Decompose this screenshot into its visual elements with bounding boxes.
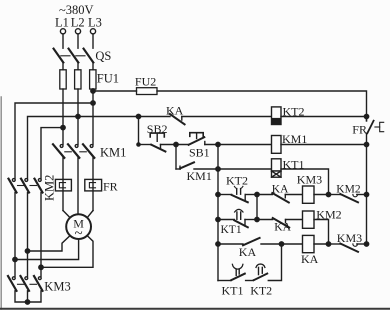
wire KA row1 to KM3 coil: [285, 194, 302, 196]
wire KM2 coil to row3: [314, 220, 329, 245]
node line3 left rail junction: [216, 142, 220, 146]
wire branch tap V (rail2 to left): [28, 117, 79, 179]
row4: wire rail corner to KT1: [218, 280, 231, 282]
wire row1-row2 connector: [256, 195, 258, 220]
svg-text:KT2: KT2: [226, 173, 248, 187]
wire KM3 coil to node: [314, 194, 329, 196]
svg-text:QS: QS: [95, 49, 111, 63]
contactor KM3 pole 2: [21, 276, 30, 291]
svg-text:SB2: SB2: [147, 122, 168, 136]
left control rail: [217, 145, 219, 281]
thermal contact FR (NC): [367, 121, 383, 134]
wire KT2 to node: [245, 194, 257, 196]
wire rail2 KM1 to motor: [77, 158, 79, 214]
wire rail3 FR to motor: [87, 211, 93, 218]
wire L2 terminal to QS: [77, 34, 79, 48]
wire KA coil to node: [314, 243, 329, 245]
node line3 right rail: [364, 142, 368, 146]
relay contact KA row1: [272, 193, 289, 203]
contactor coil KM2: [303, 211, 315, 228]
scan artifact left border: [0, 97, 2, 309]
svg-text:L3: L3: [88, 16, 102, 30]
row3: node left rail: [216, 242, 220, 246]
svg-text:KM3: KM3: [297, 173, 322, 187]
fuse FU1 pole 1: [60, 70, 66, 89]
thermal relay FR heater 1: [55, 179, 71, 191]
timer coil KT1: [272, 159, 282, 177]
wire node to KA coil: [282, 243, 303, 245]
wire node to KA row2: [257, 219, 273, 221]
node row1 left rail: [216, 192, 220, 196]
relay contact KA line2: [170, 114, 185, 124]
wire KM2 pole3 down: [40, 193, 42, 277]
node line2 left branch: [136, 114, 140, 118]
timer coil KT2: [272, 107, 282, 125]
node star point: [25, 300, 29, 304]
wire QS to FU1 pole 1: [62, 63, 64, 70]
wire KA row3 to node: [261, 243, 282, 245]
row1: wire rail to KT2 contact: [218, 194, 232, 196]
svg-text:KM2: KM2: [43, 175, 57, 201]
pushbutton SB1 (NO): [189, 133, 205, 145]
svg-text:KT2: KT2: [250, 283, 272, 297]
wire line2 mid: [182, 116, 272, 118]
svg-text:FU1: FU1: [97, 72, 119, 86]
wire rail to KA row3: [218, 243, 243, 245]
contactor KM1 main pole 1: [53, 144, 64, 158]
svg-text:FR: FR: [103, 179, 118, 193]
wire motor bottom-left lead: [28, 236, 70, 251]
switch QS pole 2 blade: [69, 49, 79, 63]
node rail3 branch tap: [91, 101, 95, 105]
relay coil KA: [303, 235, 315, 252]
wire rail3 FU1 to KM1: [92, 89, 94, 144]
node rail1 branch tap: [61, 125, 65, 129]
wire line2 right: [281, 116, 367, 118]
node row1-row2 connector bottom: [255, 217, 259, 221]
wire motor bottom-center lead: [15, 239, 79, 260]
wire line4 to KT1 coil: [218, 168, 272, 170]
svg-text:KM2: KM2: [336, 183, 361, 195]
svg-text:KA: KA: [272, 183, 289, 195]
svg-text:KA: KA: [301, 252, 319, 266]
relay contact KA row3 (NO): [243, 238, 260, 245]
contactor KM1 main pole 3: [83, 144, 94, 158]
svg-text:L1: L1: [55, 16, 69, 30]
row2: node left rail: [216, 217, 220, 221]
node row1 right junction: [326, 192, 330, 196]
aux contact KM1 (NO self-hold): [176, 162, 194, 169]
node SB2-SB1 junction: [174, 142, 178, 146]
wire KM3 outputs to star bar: [15, 291, 41, 302]
node row3 right junction: [326, 242, 330, 246]
terminal L3: [90, 29, 95, 34]
wire SB2 to SB1: [161, 144, 189, 146]
wire KT1 to node: [245, 219, 257, 221]
pushbutton SB2 (NC): [150, 133, 165, 151]
svg-text:FR: FR: [352, 122, 367, 136]
KM1 main linkage dashes: [65, 151, 87, 153]
wire branch tap U (rail3 to left): [15, 103, 93, 178]
wire line3 to SB2: [139, 144, 152, 146]
node line4 rail junction: [216, 167, 220, 171]
fuse FU2: [137, 88, 158, 95]
terminal L1: [60, 29, 65, 34]
svg-text:KM3: KM3: [337, 231, 362, 245]
wire row4 right riser: [268, 244, 281, 281]
wire rail3 KM1 to FR: [92, 158, 94, 211]
motor M: [66, 214, 91, 239]
wire rail1 KM1 to FR: [62, 158, 64, 211]
svg-text:FU2: FU2: [135, 75, 156, 89]
wire control line2: [78, 116, 170, 118]
wire control line1 right: [157, 91, 367, 121]
node row3 bypass junction: [279, 242, 283, 246]
wire rail to KT1 contact: [218, 219, 234, 221]
wire motor bottom-right lead: [41, 236, 93, 268]
svg-text:KA: KA: [239, 245, 257, 259]
wire KM3 NC to right rail: [357, 243, 367, 245]
node motor lead W2: [39, 265, 43, 269]
node row1 right rail: [364, 192, 368, 196]
wire self-hold branch down: [175, 145, 177, 170]
wire KM2 pole1 down: [14, 193, 16, 277]
svg-text:KA: KA: [274, 221, 291, 233]
node line2 right rail: [364, 114, 368, 118]
wire KT1 coil to row1 drop: [281, 169, 329, 195]
wire KM2 pole2 down: [27, 193, 29, 277]
scan artifact bottom border: [0, 308, 390, 310]
wire rail1 FU1 to KM1: [62, 89, 64, 144]
wire line3 right: [281, 144, 367, 146]
right control rail lower: [366, 133, 368, 244]
wire KM2 NC to right rail: [357, 194, 367, 196]
wire QS to FU1 pole 3: [92, 63, 94, 70]
fuse FU1 pole 3: [90, 70, 96, 89]
svg-text:KT1: KT1: [222, 283, 244, 297]
fuse FU1 pole 2: [75, 70, 81, 89]
contactor KM2 pole 1: [9, 179, 17, 193]
timer contact KT1 row4 (NO delayed): [231, 264, 245, 280]
right control rail upper: [366, 117, 368, 121]
svg-text:L2: L2: [71, 16, 85, 30]
KM2 linkage dashes: [18, 185, 37, 187]
svg-text:KM1: KM1: [100, 146, 126, 160]
wire control line1 left: [93, 90, 137, 92]
NC contact KM2 row1: [329, 194, 359, 202]
wire between KT1 and KT2 row4: [246, 280, 253, 282]
node rail2 branch tap: [76, 114, 80, 118]
svg-text:KA: KA: [166, 104, 184, 118]
svg-text:KM3: KM3: [44, 279, 70, 293]
contactor KM3 pole 1: [8, 276, 17, 291]
svg-text:KM1: KM1: [187, 169, 212, 183]
terminal L2: [75, 29, 80, 34]
timer contact KT2 row4 (NO delayed): [254, 264, 268, 280]
wire QS to FU1 pole 2: [77, 63, 79, 70]
contactor KM2 pole 3: [35, 179, 43, 193]
relay contact KA row2: [273, 218, 290, 228]
timer contact KT1 (NO delayed close): [234, 209, 248, 227]
switch QS linkage dashes: [61, 55, 85, 57]
switch QS pole 3 blade: [84, 49, 94, 63]
contactor coil KM3: [303, 186, 315, 203]
svg-text:SB1: SB1: [189, 146, 210, 160]
contactor KM2 pole 2: [21, 179, 29, 193]
contactor coil KM1: [272, 136, 282, 154]
KM3 linkage dashes: [18, 283, 37, 285]
wire line4 to rail: [194, 168, 218, 170]
wire branch line2 to line3: [138, 117, 140, 145]
wire L3 terminal to QS: [92, 34, 94, 48]
NC contact KM3 row3: [329, 244, 359, 252]
contactor KM3 pole 3: [34, 276, 43, 291]
node row1-row2 connector top: [255, 192, 259, 196]
node rail3-control tap: [91, 89, 95, 93]
wire SB1 to KM1 coil: [205, 144, 272, 146]
node line3 left corner: [137, 143, 140, 146]
switch QS pole 1 blade: [54, 49, 64, 63]
wire rail2 FU1 to KM1: [77, 89, 79, 144]
node row3 right rail: [364, 242, 368, 246]
svg-text:KT1: KT1: [221, 224, 242, 236]
wire node to KA row1: [257, 194, 272, 196]
wire rail1 FR to motor: [63, 211, 70, 218]
contactor KM1 main pole 2: [68, 144, 79, 158]
wire branch tap W (rail1 to left): [41, 128, 63, 179]
node motor lead V2: [25, 249, 29, 253]
timer contact KT2 (NC delayed): [232, 186, 248, 202]
wire L1 terminal to QS: [62, 34, 64, 48]
thermal relay FR heater 2: [85, 179, 102, 191]
wire KM3 pole2 to star bar: [27, 291, 29, 302]
wire KA row2 to KM2 coil: [286, 219, 303, 221]
node motor lead U2: [13, 257, 17, 261]
